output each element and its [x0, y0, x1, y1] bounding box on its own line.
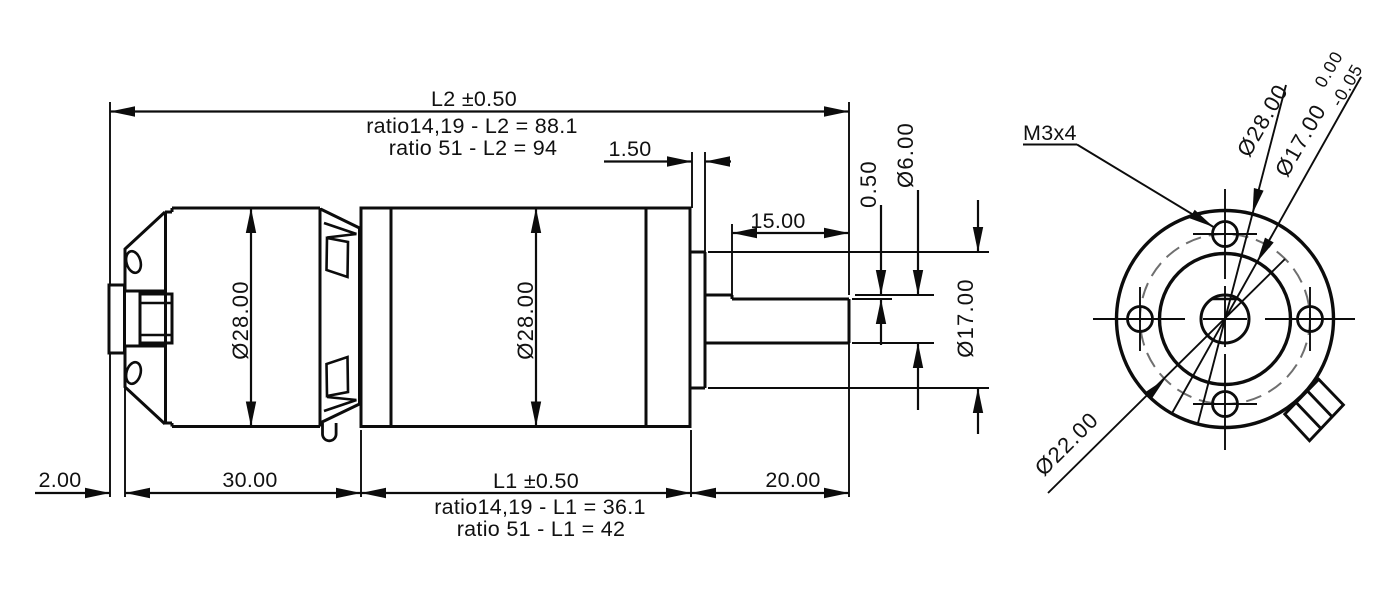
terminal tab front view [1285, 379, 1344, 440]
svg-text:Ø6.00: Ø6.00 [893, 122, 918, 188]
bolt hole top [1213, 222, 1238, 247]
dimension dia 6.00 [917, 190, 919, 295]
motor rear bell outline [125, 212, 165, 424]
bolt hole bottom [1213, 392, 1238, 417]
clip inner slant top [324, 223, 357, 234]
extension line shaft end [848, 102, 850, 295]
dimension 2.00 [35, 492, 110, 494]
dimension 1.50 [604, 160, 692, 162]
motor brush housing [125, 291, 166, 346]
extension boss top [708, 251, 989, 253]
svg-text:30.00: 30.00 [222, 468, 277, 492]
dimension L1 [361, 492, 691, 494]
clip window top [327, 238, 349, 277]
extension boss face [704, 152, 706, 252]
dimension dia 28.00 gearbox [535, 208, 537, 427]
output pilot boss [690, 251, 705, 254]
svg-text:15.00: 15.00 [750, 209, 805, 233]
dimension 20.00 [691, 492, 849, 494]
extension shaft flat [852, 298, 892, 300]
bell vent bottom [124, 360, 144, 385]
front view horizontal centerline [1093, 318, 1185, 320]
extension gearbox face bottom [690, 430, 692, 497]
motor terminal pin [323, 423, 337, 441]
bell-cylinder boundary [164, 212, 167, 424]
svg-text:1.50: 1.50 [608, 137, 651, 161]
extension boss bottom [708, 387, 989, 389]
svg-text:L1 ±0.50: L1 ±0.50 [493, 469, 579, 493]
side view: motor rear boss [109, 285, 125, 353]
front view vertical centerline [1224, 189, 1226, 279]
motor front clip top slant [321, 209, 360, 228]
svg-text:20.00: 20.00 [765, 468, 820, 492]
extension line left rear [109, 102, 111, 285]
gearbox seam left [390, 208, 393, 427]
svg-text:0.50: 0.50 [856, 160, 881, 208]
clip inner slant bottom [324, 400, 357, 411]
bolt circle dia 22 dashed [1140, 234, 1310, 404]
svg-text:ratio14,19 - L1 = 36.1: ratio14,19 - L1 = 36.1 [434, 495, 646, 519]
extension gearbox face [691, 152, 693, 208]
extension gearbox left bottom [360, 430, 362, 497]
bell lip top [165, 211, 172, 214]
motor cylinder [172, 207, 320, 210]
svg-text:ratio 51 - L2 = 94: ratio 51 - L2 = 94 [389, 136, 558, 160]
motor rear bearing [140, 294, 172, 343]
dimension 30.00 [125, 492, 361, 494]
extension flat start [731, 224, 733, 295]
extension shaft bottom [852, 342, 934, 344]
extension line x125 [124, 353, 126, 497]
dimension dia 28.00 motor [250, 208, 252, 427]
clip window bottom [327, 357, 349, 396]
svg-text:Ø17.00: Ø17.00 [953, 278, 978, 357]
dimension L2 [110, 110, 849, 112]
svg-text:ratio14,19 - L2 = 88.1: ratio14,19 - L2 = 88.1 [366, 114, 578, 138]
motor front clip bottom slant [320, 404, 360, 423]
gearbox seam right [645, 208, 648, 427]
bell lip bottom [165, 422, 172, 425]
svg-text:2.00: 2.00 [38, 468, 81, 492]
front view pilot circle dia 17 [1160, 254, 1291, 385]
dimension dia 17.00 [977, 200, 979, 252]
svg-text:Ø28.00: Ø28.00 [513, 280, 538, 359]
shaft flat chord [1212, 298, 1239, 301]
dimension 15.00 [732, 232, 849, 234]
svg-text:L2 ±0.50: L2 ±0.50 [431, 87, 517, 111]
output shaft [705, 294, 732, 297]
svg-text:M3x4: M3x4 [1023, 121, 1077, 145]
bolt hole right [1298, 307, 1323, 332]
extension shaft top [855, 294, 934, 296]
leader dia 28.00 front [1198, 85, 1286, 423]
front view outer circle dia 28 [1117, 211, 1334, 428]
gearbox body [361, 208, 690, 427]
svg-text:Ø28.00: Ø28.00 [228, 280, 253, 359]
bolt hole left [1128, 307, 1153, 332]
leader dia 17.00 front [1172, 77, 1361, 414]
bell vent top [124, 249, 144, 274]
svg-text:ratio 51 - L1 = 42: ratio 51 - L1 = 42 [457, 517, 626, 541]
motor front clip right edge [358, 228, 361, 404]
leader dia 22.00 front [1048, 259, 1285, 493]
dimension 0.50 flat depth [880, 205, 882, 295]
front view shaft hole [1201, 295, 1249, 343]
